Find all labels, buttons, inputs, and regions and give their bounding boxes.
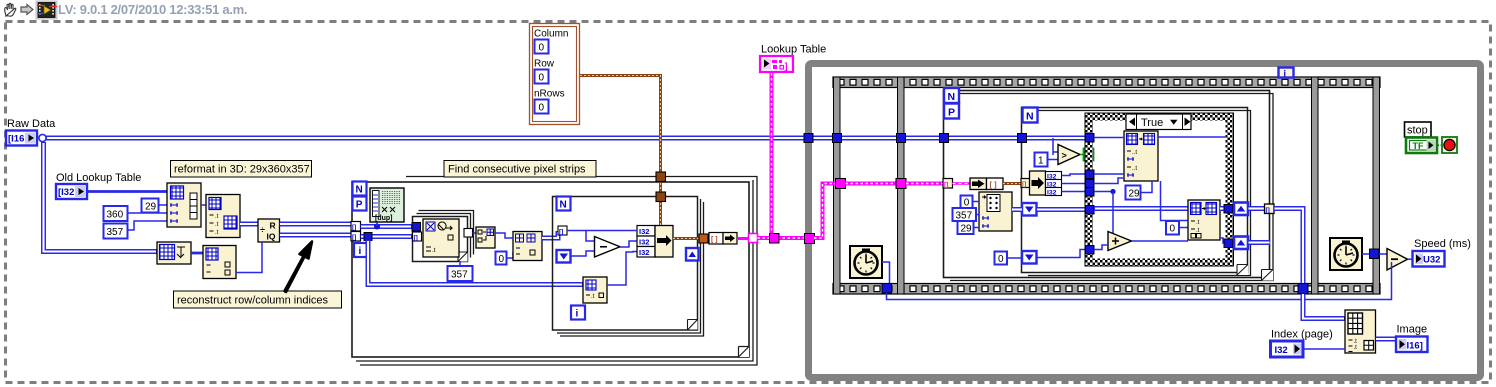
wire decimate to build cluster: [495, 233, 513, 238]
wire build cluster to inner loop2 tunnel: [542, 231, 558, 238]
toolbar VI icon button: [36, 1, 57, 19]
annotation black arrow: [285, 242, 313, 293]
svg-text:.t: .t: [215, 230, 219, 236]
tunnel on inner search loop left 2: [413, 232, 422, 241]
case tunnels left (blue squares): [1086, 134, 1095, 255]
svg-text:N: N: [948, 91, 956, 103]
control Index (page) I32 terminal: [1271, 341, 1304, 357]
svg-text:[]: []: [352, 224, 356, 231]
svg-text:[]: []: [1022, 181, 1026, 188]
wire pink dashed inside loop A: [953, 182, 971, 185]
wire replace node down to replace2: [1161, 181, 1189, 221]
svg-text:R: R: [270, 221, 276, 231]
svg-text:.t: .t: [591, 294, 595, 300]
tunnel brown on loop B border: [1021, 179, 1030, 189]
wire arrow box to case (2D): [1037, 207, 1087, 212]
wire branch down to strip-find node: [368, 240, 583, 285]
control Lookup Table terminal: [760, 56, 793, 72]
constant 357 loop B: [953, 208, 977, 222]
svg-text:Raw Data: Raw Data: [7, 118, 56, 130]
svg-text:i: i: [576, 309, 579, 320]
svg-text:[]: []: [559, 228, 563, 235]
indicator Row value 0: [535, 70, 549, 84]
tunnel brown on sheet line: [656, 172, 666, 182]
wire subtract to U32 indicator: [1408, 258, 1413, 260]
svg-text:0: 0: [499, 254, 505, 265]
for loop P terminal: [353, 197, 367, 211]
node replace array subset (case top): [1124, 131, 1158, 181]
wire index array to Image (2D): [1376, 337, 1397, 342]
for loop 2 consecutive strips (stacked): [553, 197, 704, 337]
svg-text:[dup]: [dup]: [375, 215, 393, 222]
tunnel pink on sequence left border: [836, 179, 846, 189]
tunnel loop A right: [1265, 204, 1275, 214]
node reshape array (reformat in 3D): [167, 183, 201, 227]
wire Old Lookup Table 1D array to reshape node: [87, 190, 167, 193]
wire 1 to greater: [1048, 138, 1059, 160]
wire loop2 tunnel to subtract: [567, 231, 594, 242]
node index result arrow box 1: [1022, 203, 1037, 216]
svg-text:29: 29: [145, 202, 157, 213]
svg-text:357: 357: [107, 227, 124, 238]
for loop N terminal: [353, 182, 367, 196]
constant 29: [142, 199, 159, 213]
tunnel film bottom blue (array out): [1298, 284, 1308, 294]
flat sequence left border: [834, 77, 841, 294]
for loop A (frame2 outer) stacked border: [944, 91, 1274, 281]
while loop thick gray border: [809, 64, 1481, 378]
tunnel mid-loop right pink: [749, 234, 758, 243]
indicator nRows label: [534, 89, 565, 100]
wire plus to replace2: [1132, 240, 1189, 242]
tunnel pink on divider1: [896, 179, 906, 189]
for loop A N terminal: [944, 88, 959, 103]
svg-text:I32: I32: [639, 238, 649, 247]
junction Raw Data on while border: [804, 134, 813, 143]
svg-text:0: 0: [964, 198, 970, 209]
tunnel auto-index left 2: [351, 232, 361, 242]
svg-text:I32: I32: [639, 227, 649, 236]
flat sequence film bottom bar: [833, 284, 1380, 295]
flat sequence divider 2: [1312, 77, 1319, 294]
wire rowcol node up to IQ bottom: [236, 242, 262, 273]
svg-text:i: i: [1284, 69, 1287, 79]
wire strip-extract up to converters: [607, 252, 637, 286]
node unbundle cluster to I32s: [1030, 171, 1062, 196]
node quotient and remainder R IQ: [258, 219, 280, 242]
wires case left into replace node: [1094, 138, 1124, 192]
wire 360 to reshape: [128, 212, 168, 214]
wire clock2 to sequence right tunnel: [1362, 253, 1373, 255]
toolbar title text: [58, 2, 247, 17]
constant 0 lower loop B: [995, 252, 1008, 266]
for loop B N terminal: [1023, 108, 1038, 123]
svg-text:Image: Image: [1397, 324, 1428, 336]
svg-text:Speed (ms): Speed (ms): [1414, 238, 1471, 250]
wire 357 to reshape: [128, 221, 168, 230]
wire shift register to subtract: [571, 251, 594, 256]
svg-text:29: 29: [1129, 189, 1141, 200]
constant 0 loop B: [961, 196, 973, 209]
shift register loop B right 1 (up arrow): [1234, 203, 1248, 216]
wire Raw Data branch down-left to index node: [44, 142, 158, 252]
free label reconstruct row/column indices: [174, 291, 342, 308]
indicator Column value 0: [535, 40, 549, 54]
svg-text:357: 357: [451, 270, 468, 281]
shift register loop2 right (up arrow): [686, 248, 699, 261]
constant 29 loop B: [958, 221, 974, 235]
case structure checkered border: [1085, 113, 1234, 266]
wire sort node to quotient remainder (double): [240, 222, 258, 227]
svg-text:.t: .t: [1354, 345, 1358, 351]
wire I32 outputs to case tunnels: [1062, 174, 1087, 192]
svg-text:0: 0: [539, 103, 545, 114]
tunnel loop2 left auto-index: [558, 226, 567, 235]
wire clock1 to bottom tunnel: [882, 262, 890, 284]
control Index (page) label: [1271, 329, 1333, 341]
control stop TF terminal: [1406, 138, 1437, 154]
shift register loop2 left (down arrow): [557, 250, 571, 263]
svg-text:360: 360: [107, 210, 124, 221]
svg-text:P: P: [356, 200, 363, 211]
svg-text:0: 0: [539, 73, 545, 84]
tunnel clock1 wire on film bottom: [882, 284, 892, 294]
case selector terminal ?: [1080, 149, 1094, 161]
wire clock1 long run to subtract: [887, 268, 1392, 300]
wire replace2 to case right tunnels: [1220, 209, 1226, 244]
for loop Find consecutive pixel strips - main border: [352, 182, 749, 357]
constant 357: [104, 224, 128, 239]
wire pink to mid-loop right tunnel: [737, 237, 749, 240]
wire search loop to decimate node: [473, 232, 477, 234]
svg-text:nRows: nRows: [534, 89, 565, 100]
junction Raw Data on loop A border: [940, 134, 949, 143]
svg-text:U32: U32: [1423, 255, 1440, 266]
svg-text:>: >: [1062, 151, 1067, 161]
wire pink in frame2 to loop A: [906, 182, 943, 186]
svg-text:Row: Row: [534, 59, 555, 70]
wire pink Lookup Table down: [770, 72, 774, 234]
wire junction down to plus: [1108, 192, 1113, 238]
svg-text:TF: TF: [1413, 141, 1424, 151]
svg-text:[]: []: [414, 234, 418, 241]
wire loop A tunnel to film bottom (2D): [1274, 209, 1303, 284]
svg-text:[]: []: [944, 181, 948, 188]
indicator Row label: [534, 59, 555, 70]
wire brown cluster out of bundle: [673, 237, 699, 240]
for loop 2 i terminal: [571, 306, 585, 320]
node build cluster strips: [513, 232, 542, 261]
wire index node to arrow box (2D): [1012, 207, 1022, 212]
svg-text:.t: .t: [215, 222, 219, 228]
node plus adder: [1108, 232, 1132, 251]
svg-text:reconstruct row/column indices: reconstruct row/column indices: [177, 295, 329, 307]
wire junction circle at Raw Data: [39, 134, 46, 141]
svg-text:0: 0: [1170, 224, 1176, 235]
svg-text:IQ: IQ: [267, 232, 276, 242]
node replace array subset 2: [1188, 200, 1220, 240]
svg-text:1: 1: [1038, 156, 1044, 167]
while loop i terminal on film bar: [1279, 68, 1294, 79]
wire tunnel to subtract node: [1379, 253, 1387, 255]
node dup in-place icon: [370, 188, 404, 222]
svg-text:.t: .t: [432, 247, 436, 254]
wire from film bottom down to index array (2D): [1303, 294, 1345, 319]
node array-to-cluster converter pair frame2: [970, 178, 1003, 190]
constant 0 (strip): [496, 252, 514, 266]
wire pink in frame1: [846, 182, 898, 186]
for loop i terminal: [354, 243, 368, 257]
tunnel on inner search loop left (blue square): [412, 223, 421, 232]
control Old Lookup Table label: [56, 172, 141, 184]
indicator Speed U32 terminal: [1413, 251, 1445, 267]
svg-text:.t: .t: [215, 214, 219, 220]
wire 2D into replace2: [1094, 206, 1188, 211]
svg-text:[I32: [I32: [58, 187, 74, 198]
wire sr1 to loop A tunnel (2D): [1248, 206, 1265, 211]
svg-text:0: 0: [539, 43, 545, 54]
svg-text:Column: Column: [534, 29, 568, 40]
wire brown to loop B: [1003, 182, 1021, 185]
node strip-extract inside loop2: [583, 277, 607, 303]
svg-text:[ ]: [ ]: [711, 237, 718, 244]
wire Raw Data 2D array main horizontal run: [46, 136, 1089, 141]
node decimate array: [476, 227, 495, 248]
svg-text:]: ]: [785, 61, 788, 71]
node wait ms clock frame3: [1330, 238, 1362, 270]
svg-text:P: P: [948, 107, 955, 119]
tunnel sequence right blue: [1370, 249, 1380, 259]
svg-text:Lookup Table: Lookup Table: [761, 44, 826, 56]
node subtract comparator triangle: [595, 237, 621, 258]
svg-text:[ ]: [ ]: [990, 180, 998, 189]
node transpose/interleave icon: [157, 242, 191, 264]
node index array page (bottom): [1345, 310, 1376, 353]
case selector label True: [1126, 114, 1191, 130]
control Old Lookup Table I32 terminal: [56, 184, 87, 199]
constant 0 case: [1166, 221, 1179, 235]
for loop B border: [1022, 108, 1251, 276]
for loop Find consecutive pixel strips - stacked sheet lines: [356, 177, 757, 366]
junction dot case: [1110, 189, 1115, 194]
flat sequence divider 1: [898, 77, 905, 294]
svg-text:29: 29: [961, 224, 973, 235]
indicator Column label: [534, 29, 568, 40]
indicator Image I16 terminal: [1396, 337, 1428, 353]
tunnel loop2 right brown: [699, 234, 708, 243]
svg-text:[]: []: [352, 234, 356, 241]
svg-text:Old Lookup Table: Old Lookup Table: [56, 172, 141, 184]
wires constants to index node: [973, 202, 980, 228]
flat sequence film top bar: [833, 77, 1380, 88]
constant 1: [1035, 153, 1048, 167]
wire IQ output to loop tunnel (2D): [280, 233, 352, 238]
node greater-than comparator: [1058, 145, 1080, 165]
indicator Speed (ms) label: [1414, 238, 1471, 250]
free label reformat in 3D: [171, 161, 312, 178]
wire brown cluster from indicator down to bundle: [580, 76, 661, 226]
for loop 2 N terminal: [557, 197, 571, 211]
wire arrow box 2 to case bottom tunnel: [1037, 250, 1087, 258]
node bundle cluster: [655, 226, 673, 258]
svg-text:[I16: [I16: [8, 134, 24, 145]
tunnel auto-index left 1: [351, 222, 361, 232]
junction Raw Data on loop B border: [1018, 134, 1027, 143]
for loop inner search (stacked): [413, 211, 474, 262]
node cluster-to-array converter pair: [709, 233, 737, 245]
toolbar hand tool icon: [5, 3, 16, 16]
tunnel pink on while border: [805, 234, 815, 244]
svg-text:I32: I32: [639, 248, 649, 257]
control Raw Data label: [7, 118, 56, 130]
wire boolean stop to conditional terminal: [1437, 144, 1442, 146]
while loop conditional terminal: [1442, 137, 1457, 153]
svg-text:N: N: [560, 200, 567, 211]
wire Index page to index array node: [1303, 348, 1345, 350]
svg-text:I32: I32: [1047, 189, 1057, 196]
junction pink tee from Lookup Table: [770, 234, 780, 244]
tunnel pink on loop A border: [943, 179, 953, 189]
svg-text:LV: 9.0.1 2/07/2010 12:33:51 a: LV: 9.0.1 2/07/2010 12:33:51 a.m.: [58, 2, 247, 17]
svg-text:..t: ..t: [1132, 150, 1137, 156]
tunnel search loop right: [464, 229, 473, 238]
svg-text:÷: ÷: [260, 225, 265, 235]
wire subtract to I32 converters: [620, 241, 637, 247]
shift register loop B right 2 (up arrow): [1234, 237, 1248, 250]
wire reshape to sort node: [201, 204, 206, 206]
wire R output to loop tunnel (2D): [280, 222, 352, 227]
svg-text:Index (page): Index (page): [1271, 329, 1333, 341]
constant 360: [104, 206, 128, 221]
svg-text:[]: []: [1266, 207, 1270, 214]
node search 1D array icon: [423, 219, 459, 257]
tunnel brown on loop2 top: [656, 192, 666, 202]
wire 29 into replace node: [1141, 181, 1153, 193]
toolbar run arrow icon: [21, 5, 33, 15]
indicator cluster Column/Row/nRows border: [530, 24, 580, 125]
constant 357 under search loop: [448, 261, 473, 281]
constant 29 case: [1126, 186, 1141, 200]
wire 0 to replace2: [1179, 227, 1188, 229]
svg-text:N: N: [1026, 111, 1034, 123]
svg-text:0: 0: [998, 254, 1004, 265]
node index result arrow box 2: [1022, 251, 1037, 264]
wire transpose to rowcol node: [191, 252, 203, 255]
free label Find consecutive pixel strips: [444, 161, 596, 178]
svg-text:N: N: [356, 185, 363, 196]
wire tunnel2 into loop: [361, 233, 413, 241]
svg-text:True: True: [1141, 117, 1163, 129]
wire sr2 stub: [1248, 240, 1270, 245]
svg-text:.t: .t: [1196, 220, 1200, 226]
svg-text:I32: I32: [1275, 345, 1288, 356]
control stop label: [1405, 122, 1432, 137]
junction Raw Data on divider1: [897, 134, 906, 143]
svg-text:i: i: [359, 246, 362, 257]
node index/sort 2D: [206, 195, 240, 238]
indicator nRows value 0: [535, 100, 549, 114]
indicator Image label: [1397, 324, 1428, 336]
wire replace node output right: [1158, 136, 1226, 138]
node reconstruct row/col indices: [203, 246, 236, 279]
control Lookup Table label: [761, 44, 826, 56]
node index array loop B: [979, 192, 1012, 231]
wire case bottom tunnel to plus: [1094, 245, 1108, 250]
flat sequence right border: [1373, 77, 1380, 294]
svg-text:reformat in 3D: 29x360x357: reformat in 3D: 29x360x357: [174, 164, 310, 176]
wire pink outside loop to while tunnel: [758, 236, 806, 240]
wire tunnel1 into loop with branch to dup: [361, 222, 413, 230]
node subtract (speed): [1387, 249, 1408, 271]
junction Raw Data on sequence left border: [833, 134, 842, 143]
node wait ms clock frame1: [850, 246, 882, 278]
control Raw Data I16 array terminal: [6, 131, 37, 146]
svg-text:stop: stop: [1407, 125, 1428, 137]
svg-text:..t: ..t: [1132, 166, 1137, 172]
svg-text:357: 357: [956, 211, 973, 222]
svg-text:Find consecutive pixel strips: Find consecutive pixel strips: [448, 164, 586, 176]
wire pink inside while up to sequence: [814, 184, 836, 239]
wire vertical subtract bottom input: [1391, 262, 1393, 268]
case right tunnels blue: [1224, 205, 1233, 248]
wire 0 to arrow box 2: [1007, 257, 1022, 259]
wire 29 to reshape: [159, 204, 168, 206]
for loop A P terminal: [944, 104, 959, 119]
svg-text:I16]: I16]: [1407, 340, 1423, 351]
node to-I32 converter stack: [586, 226, 655, 258]
